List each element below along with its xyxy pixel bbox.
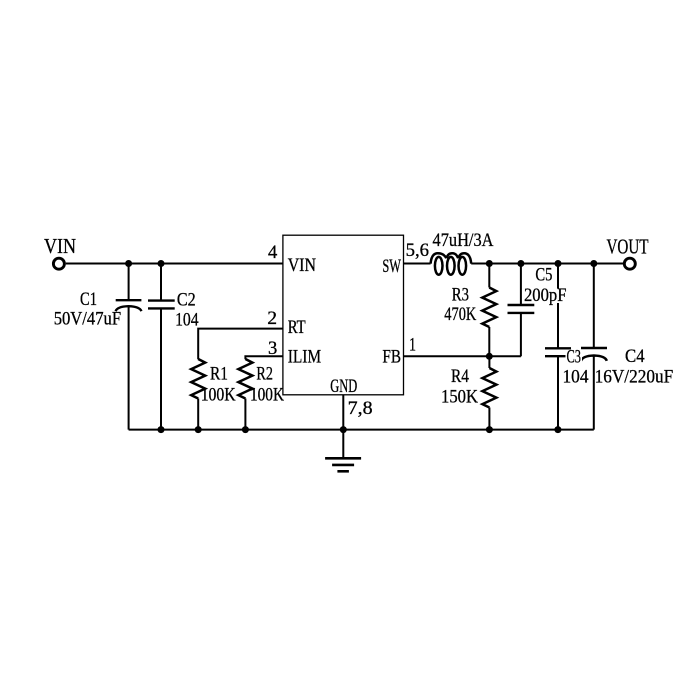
wire R2 to ground rail xyxy=(244,399,246,430)
wire RT pin 2 to R1 xyxy=(198,329,282,360)
svg-text:5,6: 5,6 xyxy=(406,240,429,261)
svg-text:104: 104 xyxy=(175,310,199,331)
svg-text:470K: 470K xyxy=(444,304,476,325)
knockout behind 200pF label where it crosses C3 wire xyxy=(552,289,569,304)
svg-text:GND: GND xyxy=(330,376,357,397)
svg-text:C2: C2 xyxy=(177,290,196,311)
terminal VOUT xyxy=(624,258,635,269)
svg-text:VOUT: VOUT xyxy=(607,235,649,259)
svg-text:C3: C3 xyxy=(567,347,582,368)
svg-text:ILIM: ILIM xyxy=(288,347,322,368)
svg-text:SW: SW xyxy=(382,256,401,277)
svg-text:100K: 100K xyxy=(250,385,284,406)
svg-text:4: 4 xyxy=(268,242,278,263)
wire SW pin to inductor xyxy=(404,263,431,265)
svg-text:C1: C1 xyxy=(80,289,97,310)
wire R3 to FB xyxy=(488,327,490,356)
wire rail to R3 xyxy=(488,264,490,288)
capacitor C3 xyxy=(545,264,571,430)
svg-text:R2: R2 xyxy=(256,364,273,385)
junction ground rail / C2 xyxy=(158,426,165,433)
resistor R1 xyxy=(191,359,205,399)
svg-text:RT: RT xyxy=(288,317,306,338)
knockout behind C3 label xyxy=(566,350,583,365)
op-amp U1 (regulator IC box) xyxy=(283,235,404,395)
junction ground rail / R4 xyxy=(486,426,493,433)
capacitor C2 xyxy=(148,264,175,430)
svg-text:VIN: VIN xyxy=(44,234,76,258)
svg-text:100K: 100K xyxy=(201,385,236,406)
junction SW rail / R3 xyxy=(486,260,493,267)
svg-text:50V/47uF: 50V/47uF xyxy=(54,309,121,330)
svg-text:200pF: 200pF xyxy=(524,285,567,306)
wire R1 to ground rail xyxy=(197,399,199,430)
svg-text:47uH/3A: 47uH/3A xyxy=(433,230,494,251)
ground symbol xyxy=(325,458,361,471)
ground rail (bottom) xyxy=(129,429,594,431)
capacitor C4 xyxy=(581,264,607,430)
junction VIN rail / C2 xyxy=(158,260,165,267)
wire inductor to VOUT xyxy=(471,263,623,265)
junction ground rail / R1 xyxy=(195,426,202,433)
svg-text:3: 3 xyxy=(268,338,277,359)
resistor R4 xyxy=(488,356,490,368)
capacitor C5 xyxy=(508,264,535,357)
svg-text:C5: C5 xyxy=(535,265,552,286)
svg-text:2: 2 xyxy=(267,308,277,329)
wire GND pin 7,8 down xyxy=(342,395,344,458)
svg-text:1: 1 xyxy=(409,335,416,356)
svg-text:7,8: 7,8 xyxy=(348,398,373,419)
svg-text:104: 104 xyxy=(563,367,589,388)
junction SW rail / C5 xyxy=(517,260,524,267)
junction ground rail / R2 xyxy=(242,426,249,433)
svg-text:VIN: VIN xyxy=(288,255,317,276)
svg-text:150K: 150K xyxy=(441,387,478,408)
wire VIN rail: terminal to pin 4 of U1 xyxy=(66,263,283,265)
junction SW rail / C4 xyxy=(590,260,597,267)
junction ground rail / GND pin xyxy=(340,426,347,433)
junction SW rail / C3 xyxy=(555,260,562,267)
svg-text:R3: R3 xyxy=(452,285,469,306)
junction ground rail / C3 xyxy=(554,426,561,433)
terminal VIN xyxy=(53,258,64,269)
wire ILIM pin 3 to R2 xyxy=(245,356,282,359)
junction FB net / R3 / R4 xyxy=(486,353,493,360)
svg-text:FB: FB xyxy=(382,347,401,368)
resistor R3 xyxy=(482,288,496,328)
wire FB pin 1 to C5/R3/R4 node xyxy=(404,355,521,357)
svg-text:R4: R4 xyxy=(451,366,469,387)
resistor R2 xyxy=(238,359,252,399)
svg-text:R1: R1 xyxy=(210,364,228,385)
inductor L1 47uH/3A xyxy=(431,253,472,274)
svg-text:16V/220uF: 16V/220uF xyxy=(595,367,674,388)
junction VIN rail / C1 xyxy=(125,260,132,267)
svg-text:C4: C4 xyxy=(625,346,645,367)
capacitor C1 xyxy=(116,264,142,430)
